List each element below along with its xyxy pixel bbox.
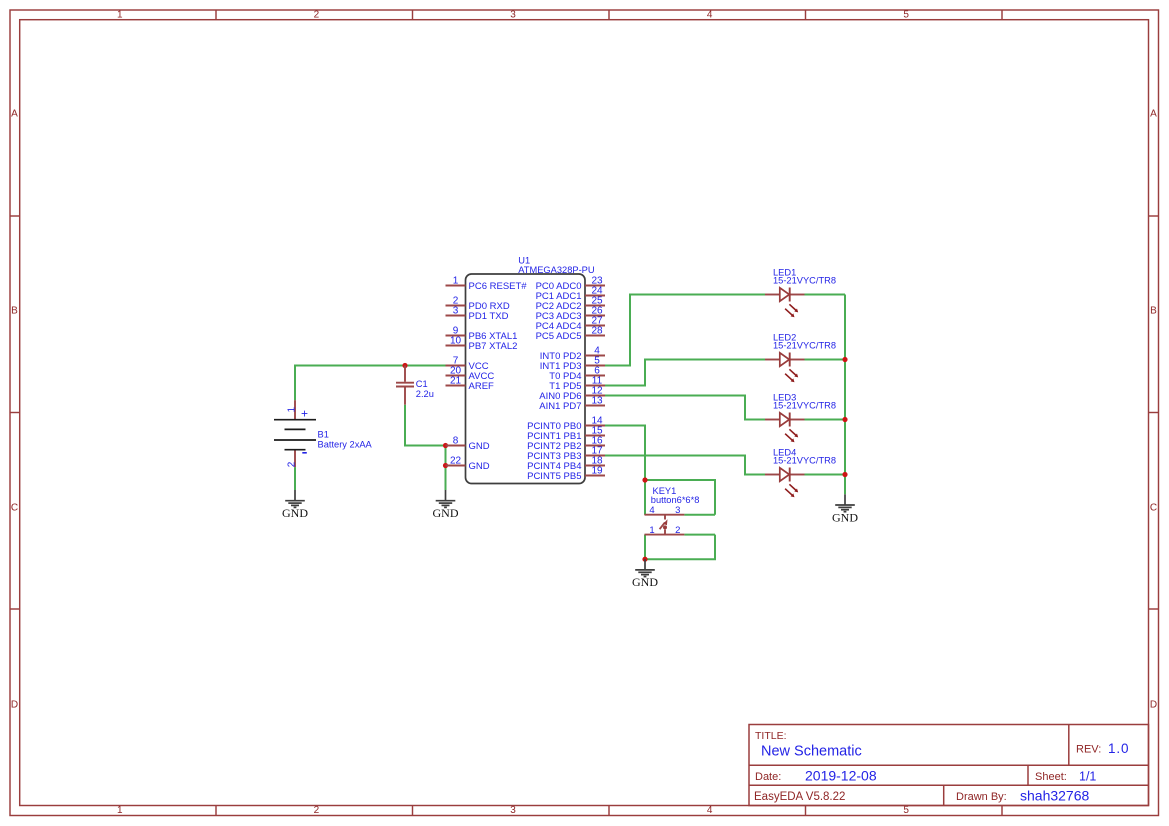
- svg-text:2.2u: 2.2u: [416, 389, 434, 399]
- svg-text:New Schematic: New Schematic: [761, 744, 862, 760]
- wire VCC battery to U1 pin7: [295, 366, 446, 401]
- svg-text:1/1: 1/1: [1079, 770, 1096, 784]
- svg-text:1: 1: [117, 9, 123, 20]
- wire LED4 cathode to bus: [805, 474, 846, 476]
- U1 pin 7 (VCC): [446, 356, 489, 372]
- junction: [842, 472, 847, 477]
- svg-text:D: D: [11, 700, 18, 711]
- svg-text:3: 3: [453, 306, 459, 317]
- svg-text:3: 3: [510, 9, 516, 20]
- svg-text:5: 5: [903, 805, 909, 816]
- U1 pin 1 (PC6 RESET#): [446, 276, 528, 292]
- svg-text:1: 1: [117, 805, 123, 816]
- IC U1 body: [466, 274, 586, 484]
- ground: [285, 490, 305, 507]
- svg-text:4: 4: [707, 9, 713, 20]
- svg-text:AIN1 PD7: AIN1 PD7: [539, 401, 581, 412]
- U1 pin 21 (AREF): [446, 376, 495, 392]
- ground: [436, 490, 456, 507]
- svg-text:3: 3: [510, 805, 516, 816]
- U1 pin 28 (PC5 ADC5): [536, 326, 605, 342]
- capacitor C1: [396, 366, 414, 405]
- svg-text:PCINT5 PB5: PCINT5 PB5: [527, 471, 581, 482]
- ground: [635, 559, 655, 576]
- wire LED cathode bus: [844, 295, 846, 495]
- svg-text:15-21VYC/TR8: 15-21VYC/TR8: [773, 276, 836, 286]
- svg-text:AREF: AREF: [469, 381, 495, 392]
- svg-text:ATMEGA328P-PU: ATMEGA328P-PU: [518, 265, 594, 275]
- junction: [642, 557, 647, 562]
- svg-text:+: +: [301, 407, 308, 421]
- wire KEY1 top net loop: [645, 480, 715, 515]
- svg-text:PB7 XTAL2: PB7 XTAL2: [469, 341, 518, 352]
- U1 pin 9 (PB6 XTAL1): [446, 326, 518, 342]
- wire U1 pin12 PD6 to LED3: [605, 396, 765, 420]
- svg-text:2019-12-08: 2019-12-08: [805, 768, 877, 784]
- svg-text:2: 2: [675, 525, 680, 536]
- U1 pin 11 (T1 PD5): [549, 376, 605, 392]
- wire U1 pin5 PD3 to LED1: [605, 295, 765, 366]
- svg-text:1: 1: [649, 525, 654, 536]
- wire LED3 cathode to bus: [805, 419, 846, 421]
- U1 pin 16 (PCINT2 PB2): [527, 436, 605, 452]
- junction: [842, 357, 847, 362]
- svg-text:15-21VYC/TR8: 15-21VYC/TR8: [773, 456, 836, 466]
- svg-text:22: 22: [450, 456, 462, 467]
- svg-text:19: 19: [591, 466, 603, 477]
- svg-text:Drawn By:: Drawn By:: [956, 791, 1007, 803]
- U1 pin 2 (PD0 RXD): [446, 296, 510, 312]
- title block: [749, 725, 1149, 806]
- svg-text:GND: GND: [433, 506, 459, 520]
- U1 pin 23 (PC0 ADC0): [536, 276, 605, 292]
- U1 pin 10 (PB7 XTAL2): [446, 336, 518, 352]
- svg-text:1.0: 1.0: [1108, 741, 1129, 756]
- svg-text:A: A: [1150, 109, 1157, 120]
- svg-text:GND: GND: [832, 510, 858, 524]
- wire U1 pin14 PB0 to KEY1: [605, 426, 645, 481]
- svg-text:Date:: Date:: [755, 771, 781, 783]
- wire C1 bottom to U1 pin8: [405, 405, 446, 446]
- svg-text:TITLE:: TITLE:: [755, 730, 787, 742]
- svg-text:1: 1: [287, 407, 298, 413]
- U1 pin 14 (PCINT0 PB0): [527, 416, 605, 432]
- svg-text:15-21VYC/TR8: 15-21VYC/TR8: [773, 401, 836, 411]
- U1 pin 27 (PC4 ADC4): [536, 316, 605, 332]
- U1 pin 15 (PCINT1 PB1): [527, 426, 605, 442]
- U1 pin 22 (GND): [446, 456, 490, 472]
- svg-text:21: 21: [450, 376, 462, 387]
- svg-text:13: 13: [591, 396, 603, 407]
- svg-text:C: C: [1150, 503, 1157, 514]
- svg-text:Sheet:: Sheet:: [1035, 771, 1067, 783]
- svg-text:GND: GND: [469, 441, 490, 452]
- svg-text:button6*6*8: button6*6*8: [651, 495, 700, 505]
- svg-text:PC6 RESET#: PC6 RESET#: [469, 281, 528, 292]
- svg-text:A: A: [11, 109, 18, 120]
- U1 pin 18 (PCINT4 PB4): [527, 456, 605, 472]
- wire KEY1 pin3 stub: [684, 514, 715, 516]
- ground: [835, 494, 855, 511]
- wire KEY1 pin2 stub: [684, 534, 715, 536]
- svg-text:C: C: [11, 503, 18, 514]
- svg-text:4: 4: [707, 805, 713, 816]
- wire GND bus pin8-pin22: [445, 446, 447, 491]
- U1 pin 25 (PC2 ADC2): [536, 296, 605, 312]
- junction: [443, 443, 448, 448]
- svg-text:GND: GND: [469, 461, 490, 472]
- svg-text:B: B: [11, 306, 18, 317]
- wire KEY1 bottom net loop: [645, 535, 715, 560]
- svg-text:3: 3: [675, 505, 680, 516]
- svg-text:EasyEDA V5.8.22: EasyEDA V5.8.22: [754, 791, 845, 803]
- U1 pin 17 (PCINT3 PB3): [527, 446, 605, 462]
- LED LED4: [765, 468, 805, 498]
- svg-text:B: B: [1150, 306, 1157, 317]
- svg-text:1: 1: [453, 276, 459, 287]
- svg-text:4: 4: [649, 505, 654, 516]
- pushbutton KEY1: [645, 515, 685, 535]
- svg-text:8: 8: [453, 436, 459, 447]
- wire U1 pin17 PB3 to LED4: [605, 456, 765, 475]
- U1 pin 13 (AIN1 PD7): [539, 396, 605, 412]
- svg-text:10: 10: [450, 336, 462, 347]
- junction: [642, 477, 647, 482]
- LED LED2: [765, 353, 805, 383]
- wire LED2 cathode to bus: [805, 359, 846, 361]
- U1 pin 4 (INT0 PD2): [540, 346, 605, 362]
- U1 pin 26 (PC3 ADC3): [536, 306, 605, 322]
- junction: [842, 417, 847, 422]
- junction: [443, 463, 448, 468]
- svg-text:GND: GND: [632, 575, 658, 589]
- svg-text:PD1 TXD: PD1 TXD: [469, 311, 509, 322]
- U1 pin 6 (T0 PD4): [549, 366, 605, 382]
- svg-text:2: 2: [314, 9, 320, 20]
- U1 pin 3 (PD1 TXD): [446, 306, 509, 322]
- svg-text:Battery 2xAA: Battery 2xAA: [318, 439, 373, 449]
- svg-text:GND: GND: [282, 506, 308, 520]
- svg-text:D: D: [1150, 700, 1157, 711]
- svg-text:shah32768: shah32768: [1020, 788, 1090, 804]
- U1 pin 8 (GND): [446, 436, 490, 452]
- wire LED1 cathode to bus: [805, 294, 846, 296]
- U1 pin 12 (AIN0 PD6): [539, 386, 605, 402]
- U1 pin 24 (PC1 ADC1): [536, 286, 605, 302]
- svg-text:REV:: REV:: [1076, 744, 1101, 756]
- junction: [402, 363, 407, 368]
- svg-text:5: 5: [903, 9, 909, 20]
- svg-text:28: 28: [591, 326, 603, 337]
- U1 pin 20 (AVCC): [446, 366, 495, 382]
- wire U1 pin11 PD5 to LED2: [605, 360, 765, 386]
- LED LED1: [765, 288, 805, 318]
- svg-text:15-21VYC/TR8: 15-21VYC/TR8: [773, 341, 836, 351]
- svg-text:2: 2: [314, 805, 320, 816]
- svg-text:C1: C1: [416, 379, 428, 389]
- battery B1: [274, 400, 316, 467]
- U1 pin 5 (INT1 PD3): [540, 356, 605, 372]
- battery B1 minus mark: [302, 452, 307, 454]
- svg-text:B1: B1: [318, 430, 329, 440]
- U1 pin 19 (PCINT5 PB5): [527, 466, 605, 482]
- svg-text:PC5 ADC5: PC5 ADC5: [536, 331, 582, 342]
- svg-text:2: 2: [287, 461, 298, 467]
- wire battery negative to GND: [294, 467, 296, 490]
- LED LED3: [765, 413, 805, 443]
